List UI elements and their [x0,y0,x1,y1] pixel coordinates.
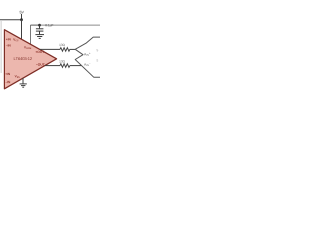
cropped label right edge lower [96,59,98,61]
pin VCC [13,38,18,41]
pin +IN (upper) [6,38,11,40]
wire VCC supply [21,20,23,40]
wire VOCM rail right [41,24,101,26]
resistor R1 13ohm [60,48,70,52]
wire -OUT [45,65,60,67]
pin +OUT [35,51,44,53]
label R2 13ohm [59,60,64,62]
pin VSS [15,75,20,78]
wire left crop edge [0,21,2,73]
label R1 13ohm [59,44,64,46]
junction 5V/VCC [20,18,23,21]
pin VOCM [24,46,31,49]
capacitor C1 0.1uF [36,25,44,34]
op-amp U1 LT6403-12 [4,30,56,89]
resistor R2 13ohm [60,64,70,68]
wire VOCM vertical [30,25,32,44]
pin AIN+ [84,53,90,56]
wire +OUT [40,48,60,50]
node 5V stub [21,14,23,20]
pin +IN (lower) [5,73,10,75]
pin AIN- [84,63,91,66]
label 5V [20,11,24,14]
wire VOCM rail [31,24,41,26]
ground bypass [35,35,44,39]
wire to AIN- [70,65,82,67]
ADC torn edge [75,37,100,77]
label 0.1uF [45,24,53,27]
cropped label right edge upper [96,49,98,51]
pin -IN (lower) [6,81,11,83]
pin -IN (upper) [6,44,11,46]
junction VOCM/C1 [38,24,41,27]
wire to AIN+ [70,48,75,50]
label U1 part number [14,57,32,60]
ground VSS [20,78,27,87]
wire 5V rail [0,19,22,21]
pin -OUT [36,63,45,65]
